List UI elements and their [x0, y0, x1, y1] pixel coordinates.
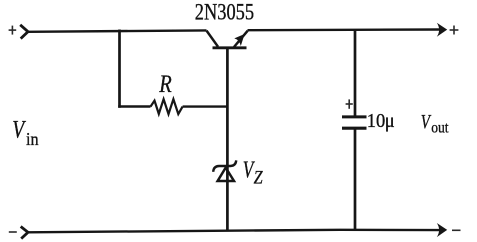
svg-text:μ: μ	[385, 110, 395, 132]
svg-text:in: in	[26, 129, 39, 149]
svg-text:Z: Z	[254, 166, 263, 188]
svg-text:V: V	[12, 115, 26, 143]
svg-text:R: R	[158, 70, 171, 97]
svg-text:V: V	[421, 110, 432, 133]
svg-text:2N3055: 2N3055	[195, 0, 254, 25]
svg-text:out: out	[431, 119, 449, 136]
svg-text:10: 10	[367, 110, 386, 132]
